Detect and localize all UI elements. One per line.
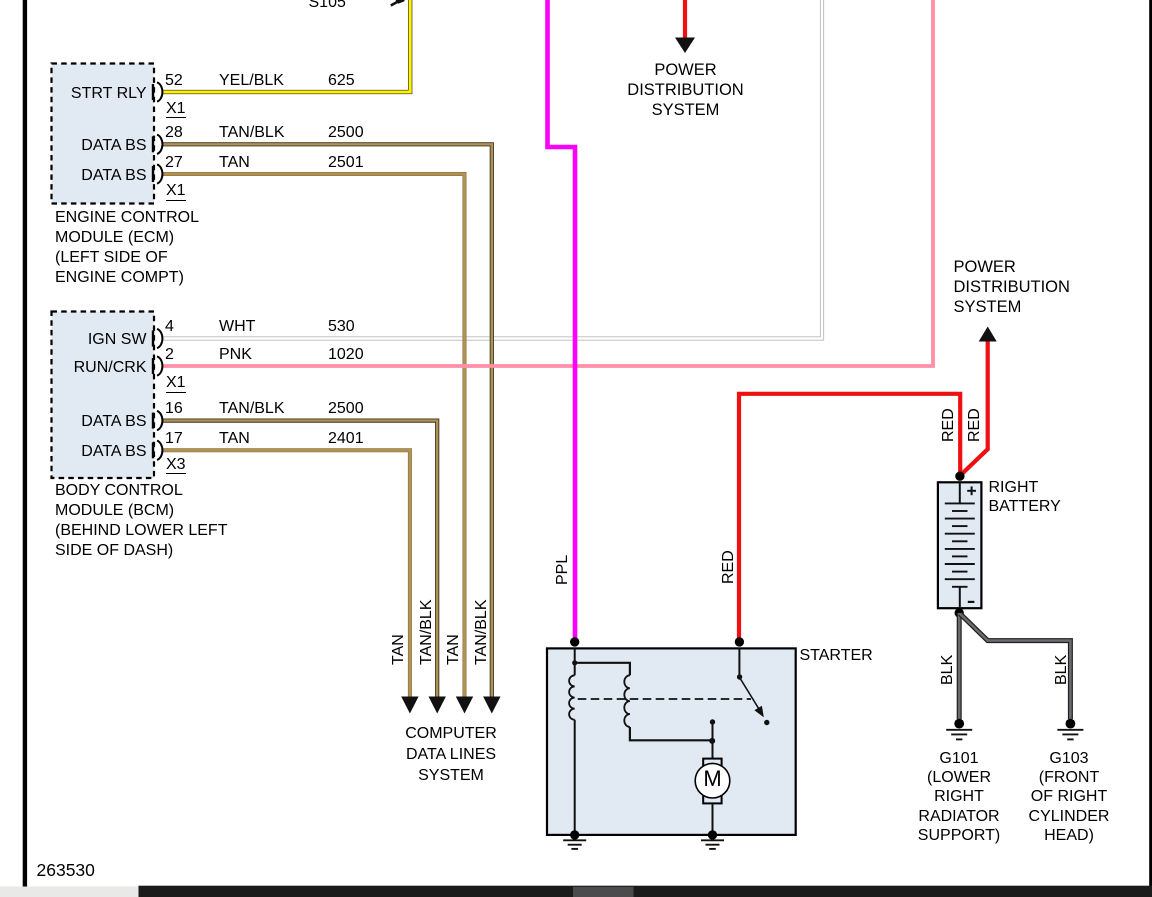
arrow from power distribution (down) [675,38,695,54]
wire coil L1 to ground [574,720,576,835]
wire label RED (battery right) [967,408,983,442]
connector label X3 (BCM pin 17) [166,457,186,475]
computer data lines arrow 3 [456,697,473,714]
solenoid coil L2 (pull-in) [624,675,630,727]
junction dot RED at starter [735,637,744,646]
ground G103 symbol [1057,730,1083,740]
caption POWER DISTRIBUTION SYSTEM (top) [625,60,746,120]
wire label BLK (G103) [1054,655,1070,685]
pin row 16 TAN/BLK 2500 [165,401,183,417]
computer data lines arrow 1 [401,697,418,714]
battery box [938,482,982,608]
junction node at motor branch [709,738,715,744]
solenoid coil L1 (hold-in) [569,675,575,719]
switch feed wire [738,648,740,676]
scrollbar thumb [573,887,634,897]
label ECM STRT RLY [52,86,147,102]
battery internal bottom lead [959,587,961,607]
wire label TAN (arrow 1) [391,634,407,665]
wire BLK battery to G103 [960,614,1070,719]
caption RIGHT BATTERY [989,478,1061,517]
BCM pin 17 terminal [153,441,162,460]
ground symbol starter motor [701,840,724,849]
motor M armature frame [703,759,721,804]
wire label BLK (G101) [940,655,956,685]
wire coil L2 to motor node [630,727,712,740]
pin row 27 TAN 2501 [165,155,183,171]
motor feed terminal node [710,719,715,724]
splice S105 arrow at top [391,1,399,5]
computer data lines arrow 4 [483,697,500,714]
caption ground G103 [1009,749,1129,845]
ground symbol starter coil [563,840,586,849]
pin row 2 PNK 1020 [165,347,174,363]
switch contact node [764,720,769,725]
wire TAN 2501 from ECM pin 27 down to arrow 3 [162,174,465,697]
ground G101 symbol [946,730,972,740]
computer data lines arrow 2 [429,697,446,714]
caption ECM [55,208,199,288]
label ECM DATA BS pin 27 [52,168,147,184]
pin row 4 WHT 530 [165,319,174,335]
junction dot battery positive [955,472,964,481]
connector label X1 (BCM pin 2) [166,375,186,393]
wire RED battery positive to starter [739,394,960,640]
battery plus sign [967,486,976,495]
motor label M [698,768,727,790]
wire RED battery positive to power distribution (up arrow) [960,339,988,476]
scrollbar track left [0,887,139,897]
wire motor to ground [712,803,714,835]
ground G103 node [1066,719,1076,729]
starter box [547,648,796,835]
ECM pin 52 terminal [153,82,162,101]
BCM connector box [52,312,155,479]
BCM pin 2 terminal [153,356,162,375]
ECM pin 27 terminal [153,164,162,183]
wire label TAN (arrow 3) [446,634,462,665]
wire TAN 2401 from BCM pin 17 down to arrow 1 [162,450,410,696]
label BCM DATA BS pin 16 [52,414,147,430]
label ECM DATA BS pin 28 [52,138,147,154]
junction dot PPL at starter [570,637,579,646]
wire branch to pull-in coil [575,663,630,676]
wire TAN/BLK 2500 from BCM pin 16 down to arrow 2 [162,421,438,697]
ground node starter coil [570,830,579,839]
wire label TAN/BLK (arrow 2) [419,599,435,665]
wire TAN/BLK 2500 from ECM pin 28 down to arrow 4 [162,144,492,696]
splice label S105 (clipped at top) [309,0,346,11]
connector label X1 (ECM pin 52) [166,101,186,119]
junction dot battery negative [955,608,964,617]
BCM pin 16 terminal [153,411,162,430]
wire YEL/BLK 625 from ECM pin 52 to splice S105 at top [162,0,411,92]
wire WHT 530 from BCM pin 4 up to top [162,0,823,339]
wire label TAN/BLK (arrow 4) [474,599,490,665]
wire PNK 1020 from BCM pin 2 up to top [162,0,934,366]
motor M circle [695,763,730,798]
ECM connector box [52,64,155,204]
ground G101 node [954,719,964,729]
switch blade [741,679,761,712]
ECM pin 28 terminal [153,135,162,154]
caption POWER DISTRIBUTION SYSTEM (right) [954,257,1070,317]
wire label RED (battery left) [941,408,957,442]
label BCM DATA BS pin 17 [52,444,147,460]
pin row 52 YEL/BLK 625 [165,73,183,89]
pin row 17 TAN 2401 [165,431,183,447]
diagram left border [23,0,27,887]
caption COMPUTER DATA LINES SYSTEM [371,723,531,786]
label BCM RUN/CRK [52,360,147,376]
connector label X1 (ECM pin 27) [166,183,186,201]
diagram right border [1149,0,1152,897]
battery minus sign [968,601,975,603]
caption ground G101 [899,749,1019,845]
battery internal top lead [959,483,961,503]
wire PPL from top down to starter solenoid [548,0,576,640]
wire BLK battery to G101 [957,613,962,719]
wire motor feed [712,722,714,759]
scrollbar dark bar [139,886,1152,897]
ground node starter motor [708,830,717,839]
mechanical linkage dashed line [578,698,751,700]
battery plates [945,503,975,586]
figure number 263530 [37,862,95,878]
node: solenoid branch junction [572,660,577,665]
switch pivot node [737,674,742,679]
arrow to power distribution (up) [979,327,997,342]
switch blade arrowhead [754,706,763,718]
BCM pin 4 terminal [153,329,162,348]
wire label PPL [555,554,571,584]
caption BCM [55,481,227,561]
label BCM IGN SW [52,332,147,348]
label STARTER [800,648,873,664]
starter internal wire from PPL entry [574,648,576,675]
wire label RED (starter feed) [721,550,737,584]
wire RED from power distribution at top down to arrow [683,0,687,39]
pin row 28 TAN/BLK 2500 [165,125,183,141]
